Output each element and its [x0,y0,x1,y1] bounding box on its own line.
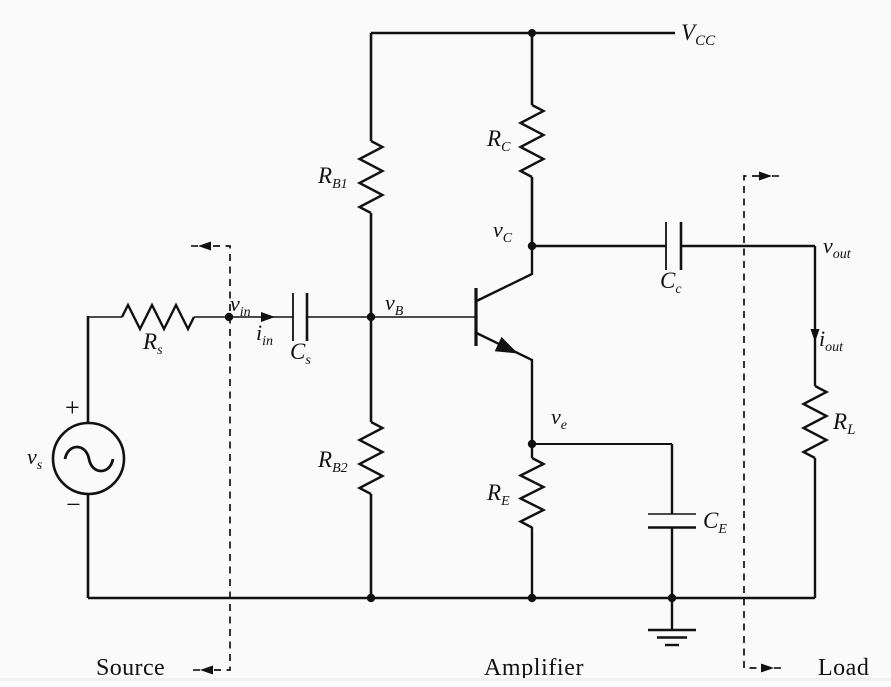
node vin [225,313,233,321]
source boundary arrow bottom [193,666,213,675]
wire Cc to vout corner [681,245,815,247]
wire CE bottom lead [671,527,673,598]
wire left branch above source [87,316,90,423]
svg-text:vin: vin [230,291,251,320]
arrow iin [261,312,275,322]
source vs circle [53,423,124,494]
svg-text:RL: RL [832,409,855,438]
svg-text:RB1: RB1 [317,163,348,192]
wire bottom rail [88,597,815,600]
load boundary arrow bottom [761,664,781,673]
wire RC bottom lead to node vC [531,177,534,246]
svg-text:vs: vs [27,444,43,473]
capacitor Cc [666,222,681,270]
svg-text:vout: vout [823,233,852,262]
transistor Q1 collector lead [477,246,533,301]
wire vin to Cs [229,316,293,318]
node vC [528,242,536,250]
source vs sine [65,447,113,471]
wire CE top lead [671,444,673,514]
wire RE top lead [531,444,533,458]
resistor RB2 [360,422,383,494]
wire left branch below source [87,494,90,598]
load boundary dashed line [744,176,760,668]
node ve [528,440,536,448]
svg-text:RB2: RB2 [317,447,348,476]
wire RB1 bottom lead to node vB [370,213,373,317]
capacitor CE [648,514,696,528]
source boundary arrow top [191,242,211,251]
svg-text:+: + [65,393,80,422]
arrow iout [811,329,820,342]
wire vB to RB2 [370,317,373,422]
svg-text:vC: vC [493,217,513,246]
node junction RB2/rail [367,594,375,602]
transistor Q1 emitter lead [477,333,533,444]
resistor RE [521,458,544,528]
wire vB to base [371,316,475,318]
node junction CE/rail [668,594,676,602]
svg-text:Cs: Cs [290,339,311,368]
svg-text:RE: RE [486,480,510,509]
wire RC top lead [531,33,534,105]
wire RL bottom lead [814,458,816,598]
capacitor Cs [293,293,307,341]
transistor Q1 base bar [474,288,477,346]
svg-text:iin: iin [256,320,273,349]
ground [648,598,696,645]
node junction RE/rail [528,594,536,602]
node junction VCC/RC [528,29,536,37]
wire Rs to node vin [194,316,229,318]
resistor Rs [122,305,194,329]
load boundary arrow top [759,172,779,181]
resistor RC [521,105,544,177]
resistor RL [804,386,827,458]
svg-text:CE: CE [703,508,727,537]
wire RE bottom lead [531,527,533,598]
node vB [367,313,375,321]
resistor RB1 [360,141,383,213]
svg-text:iout: iout [819,326,844,355]
svg-text:VCC: VCC [681,20,716,49]
wire vout down to RL [814,246,816,386]
svg-text:ve: ve [551,404,567,433]
bottom separator line [0,678,891,681]
transistor Q1 emitter arrow [495,337,518,354]
wire RB2 bottom lead [370,494,373,598]
wire vC to Cc [532,245,666,247]
svg-text:vB: vB [385,290,404,319]
wire Cs to vB [307,316,371,318]
wire RB1 top lead [370,33,373,141]
source boundary dashed line [213,246,230,670]
svg-text:Rs: Rs [142,329,163,358]
wire ve to CE [532,443,672,445]
svg-text:−: − [66,490,81,519]
wire top VCC rail [371,32,675,35]
svg-text:Cc: Cc [660,268,682,297]
svg-text:RC: RC [486,126,511,155]
wire source to Rs [88,316,122,318]
